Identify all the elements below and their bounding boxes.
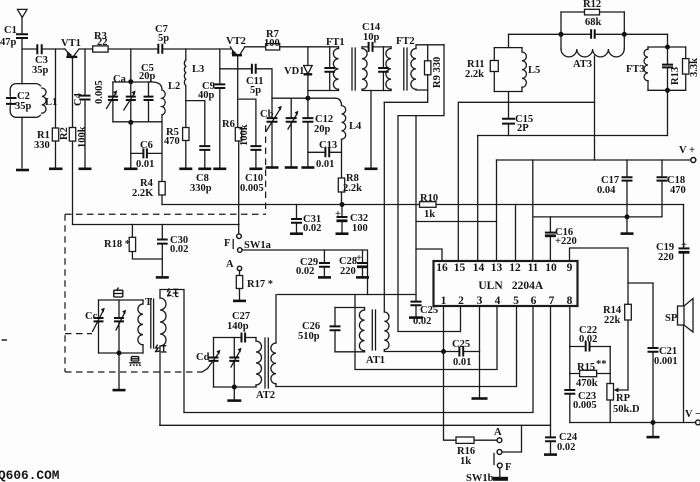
svg-text:R2: R2 — [59, 127, 70, 140]
svg-text:F: F — [505, 462, 511, 473]
svg-text:0.01: 0.01 — [136, 159, 154, 170]
svg-text:12: 12 — [509, 262, 521, 274]
svg-text:0.001: 0.001 — [654, 356, 678, 367]
svg-text:0.02: 0.02 — [557, 442, 575, 453]
svg-text:100: 100 — [352, 223, 368, 234]
svg-text:ULN: ULN — [478, 280, 503, 292]
svg-text:**: ** — [596, 359, 607, 370]
svg-text:R12: R12 — [583, 0, 601, 10]
svg-text:1: 1 — [441, 295, 447, 307]
svg-text:C25: C25 — [420, 305, 438, 316]
svg-text:13: 13 — [491, 262, 503, 274]
svg-text:VD1: VD1 — [284, 66, 304, 77]
svg-text:AT1: AT1 — [366, 355, 385, 366]
svg-text:7: 7 — [549, 295, 555, 307]
svg-text:C13: C13 — [319, 140, 337, 151]
svg-text:0.005: 0.005 — [94, 80, 105, 104]
svg-text:68k: 68k — [585, 17, 602, 28]
svg-text:47p: 47p — [0, 37, 17, 48]
svg-text:1k: 1k — [460, 456, 471, 467]
svg-text:Cd: Cd — [196, 352, 210, 363]
svg-text:1k: 1k — [424, 209, 435, 220]
svg-text:FT3: FT3 — [626, 64, 645, 75]
svg-text:15: 15 — [454, 262, 466, 274]
svg-text:0.02: 0.02 — [579, 334, 597, 345]
svg-text:220: 220 — [340, 266, 356, 277]
svg-text:A: A — [226, 259, 234, 270]
svg-text:40p: 40p — [198, 90, 215, 101]
svg-text:0.02: 0.02 — [296, 266, 314, 277]
svg-text:C25: C25 — [452, 339, 470, 350]
svg-text:Cc: Cc — [85, 311, 98, 322]
svg-text:SW1b: SW1b — [466, 473, 494, 482]
svg-text:+: + — [356, 253, 362, 264]
svg-text:R17 *: R17 * — [247, 279, 273, 290]
svg-text:9: 9 — [567, 262, 573, 274]
svg-text:R9 330: R9 330 — [432, 57, 443, 88]
svg-text:2204A: 2204A — [512, 280, 544, 292]
svg-text:L5: L5 — [528, 65, 540, 76]
svg-text:L4: L4 — [349, 121, 362, 132]
svg-text:V +: V + — [679, 145, 695, 156]
svg-text:6: 6 — [531, 295, 537, 307]
svg-text:F: F — [224, 238, 230, 249]
svg-text:220: 220 — [658, 252, 674, 263]
svg-text:0.01: 0.01 — [316, 159, 334, 170]
svg-text:470: 470 — [164, 136, 180, 147]
svg-text:8: 8 — [567, 295, 573, 307]
svg-text:470: 470 — [670, 185, 686, 196]
svg-text:RP: RP — [616, 393, 631, 404]
svg-text:100: 100 — [264, 38, 280, 49]
svg-text:2.2k: 2.2k — [465, 69, 484, 80]
svg-text:16: 16 — [436, 262, 448, 274]
svg-text:R18 *: R18 * — [104, 239, 130, 250]
svg-text:0.005: 0.005 — [573, 400, 597, 411]
svg-text:FT1: FT1 — [326, 37, 345, 48]
svg-text:5p: 5p — [158, 33, 169, 44]
svg-text:2: 2 — [458, 295, 464, 307]
svg-text:VT1: VT1 — [61, 38, 81, 49]
svg-text:35p: 35p — [32, 65, 49, 76]
svg-text:35p: 35p — [15, 101, 32, 112]
svg-text:L2: L2 — [168, 81, 180, 92]
svg-text:100k: 100k — [77, 126, 88, 148]
svg-text:Ca: Ca — [113, 74, 127, 85]
svg-text:14: 14 — [473, 262, 485, 274]
svg-text:FT2: FT2 — [396, 36, 415, 47]
svg-text:22: 22 — [97, 37, 108, 48]
svg-text:5: 5 — [513, 295, 519, 307]
svg-text:4: 4 — [495, 295, 501, 307]
svg-text:C4: C4 — [73, 92, 84, 106]
svg-text:+220: +220 — [555, 236, 577, 247]
svg-text:3.3k: 3.3k — [689, 58, 700, 77]
svg-text:+: + — [335, 209, 341, 220]
svg-text:R13: R13 — [670, 67, 681, 85]
svg-text:0.02: 0.02 — [413, 316, 431, 327]
svg-text:0.02: 0.02 — [170, 244, 188, 255]
svg-text:R15: R15 — [577, 362, 595, 373]
svg-text:L1: L1 — [45, 97, 57, 108]
svg-text:5p: 5p — [250, 85, 261, 96]
svg-text:2P: 2P — [517, 123, 529, 134]
svg-text:10p: 10p — [363, 32, 380, 43]
svg-text:+: + — [681, 240, 687, 251]
svg-text:0.02: 0.02 — [303, 223, 321, 234]
svg-text:330p: 330p — [190, 183, 212, 194]
svg-text:Q606.COM: Q606.COM — [0, 468, 60, 482]
svg-text:C1: C1 — [4, 25, 17, 36]
svg-text:50k.D: 50k.D — [613, 404, 640, 415]
svg-text:SP: SP — [665, 313, 678, 324]
svg-text:L3: L3 — [192, 64, 204, 75]
svg-text:V −: V − — [685, 409, 700, 420]
svg-text:VT2: VT2 — [226, 36, 246, 47]
svg-text:0.005: 0.005 — [240, 183, 264, 194]
svg-text:R10: R10 — [420, 193, 438, 204]
svg-text:11: 11 — [528, 262, 539, 274]
svg-text:SW1a: SW1a — [244, 240, 272, 251]
svg-text:R6: R6 — [222, 119, 235, 130]
svg-text:330: 330 — [34, 140, 50, 151]
svg-text:510p: 510p — [298, 331, 320, 342]
svg-text:T: T — [145, 297, 152, 308]
svg-text:2.2k: 2.2k — [343, 183, 362, 194]
svg-text:2.2K: 2.2K — [132, 188, 154, 199]
svg-text:3: 3 — [477, 295, 483, 307]
svg-text:22k: 22k — [604, 315, 621, 326]
svg-text:Cb: Cb — [260, 109, 274, 120]
svg-text:0.04: 0.04 — [597, 185, 616, 196]
svg-text:20p: 20p — [139, 71, 156, 82]
svg-text:140p: 140p — [227, 321, 249, 332]
svg-text:470k: 470k — [576, 378, 598, 389]
svg-text:0.01: 0.01 — [453, 357, 471, 368]
svg-text:20p: 20p — [314, 124, 331, 135]
svg-text:AT2: AT2 — [256, 390, 275, 401]
svg-text:C6: C6 — [140, 140, 153, 151]
svg-text:10: 10 — [545, 262, 557, 274]
svg-text:100k: 100k — [239, 124, 250, 146]
svg-text:AT3: AT3 — [573, 59, 592, 70]
svg-text:A: A — [494, 427, 502, 438]
